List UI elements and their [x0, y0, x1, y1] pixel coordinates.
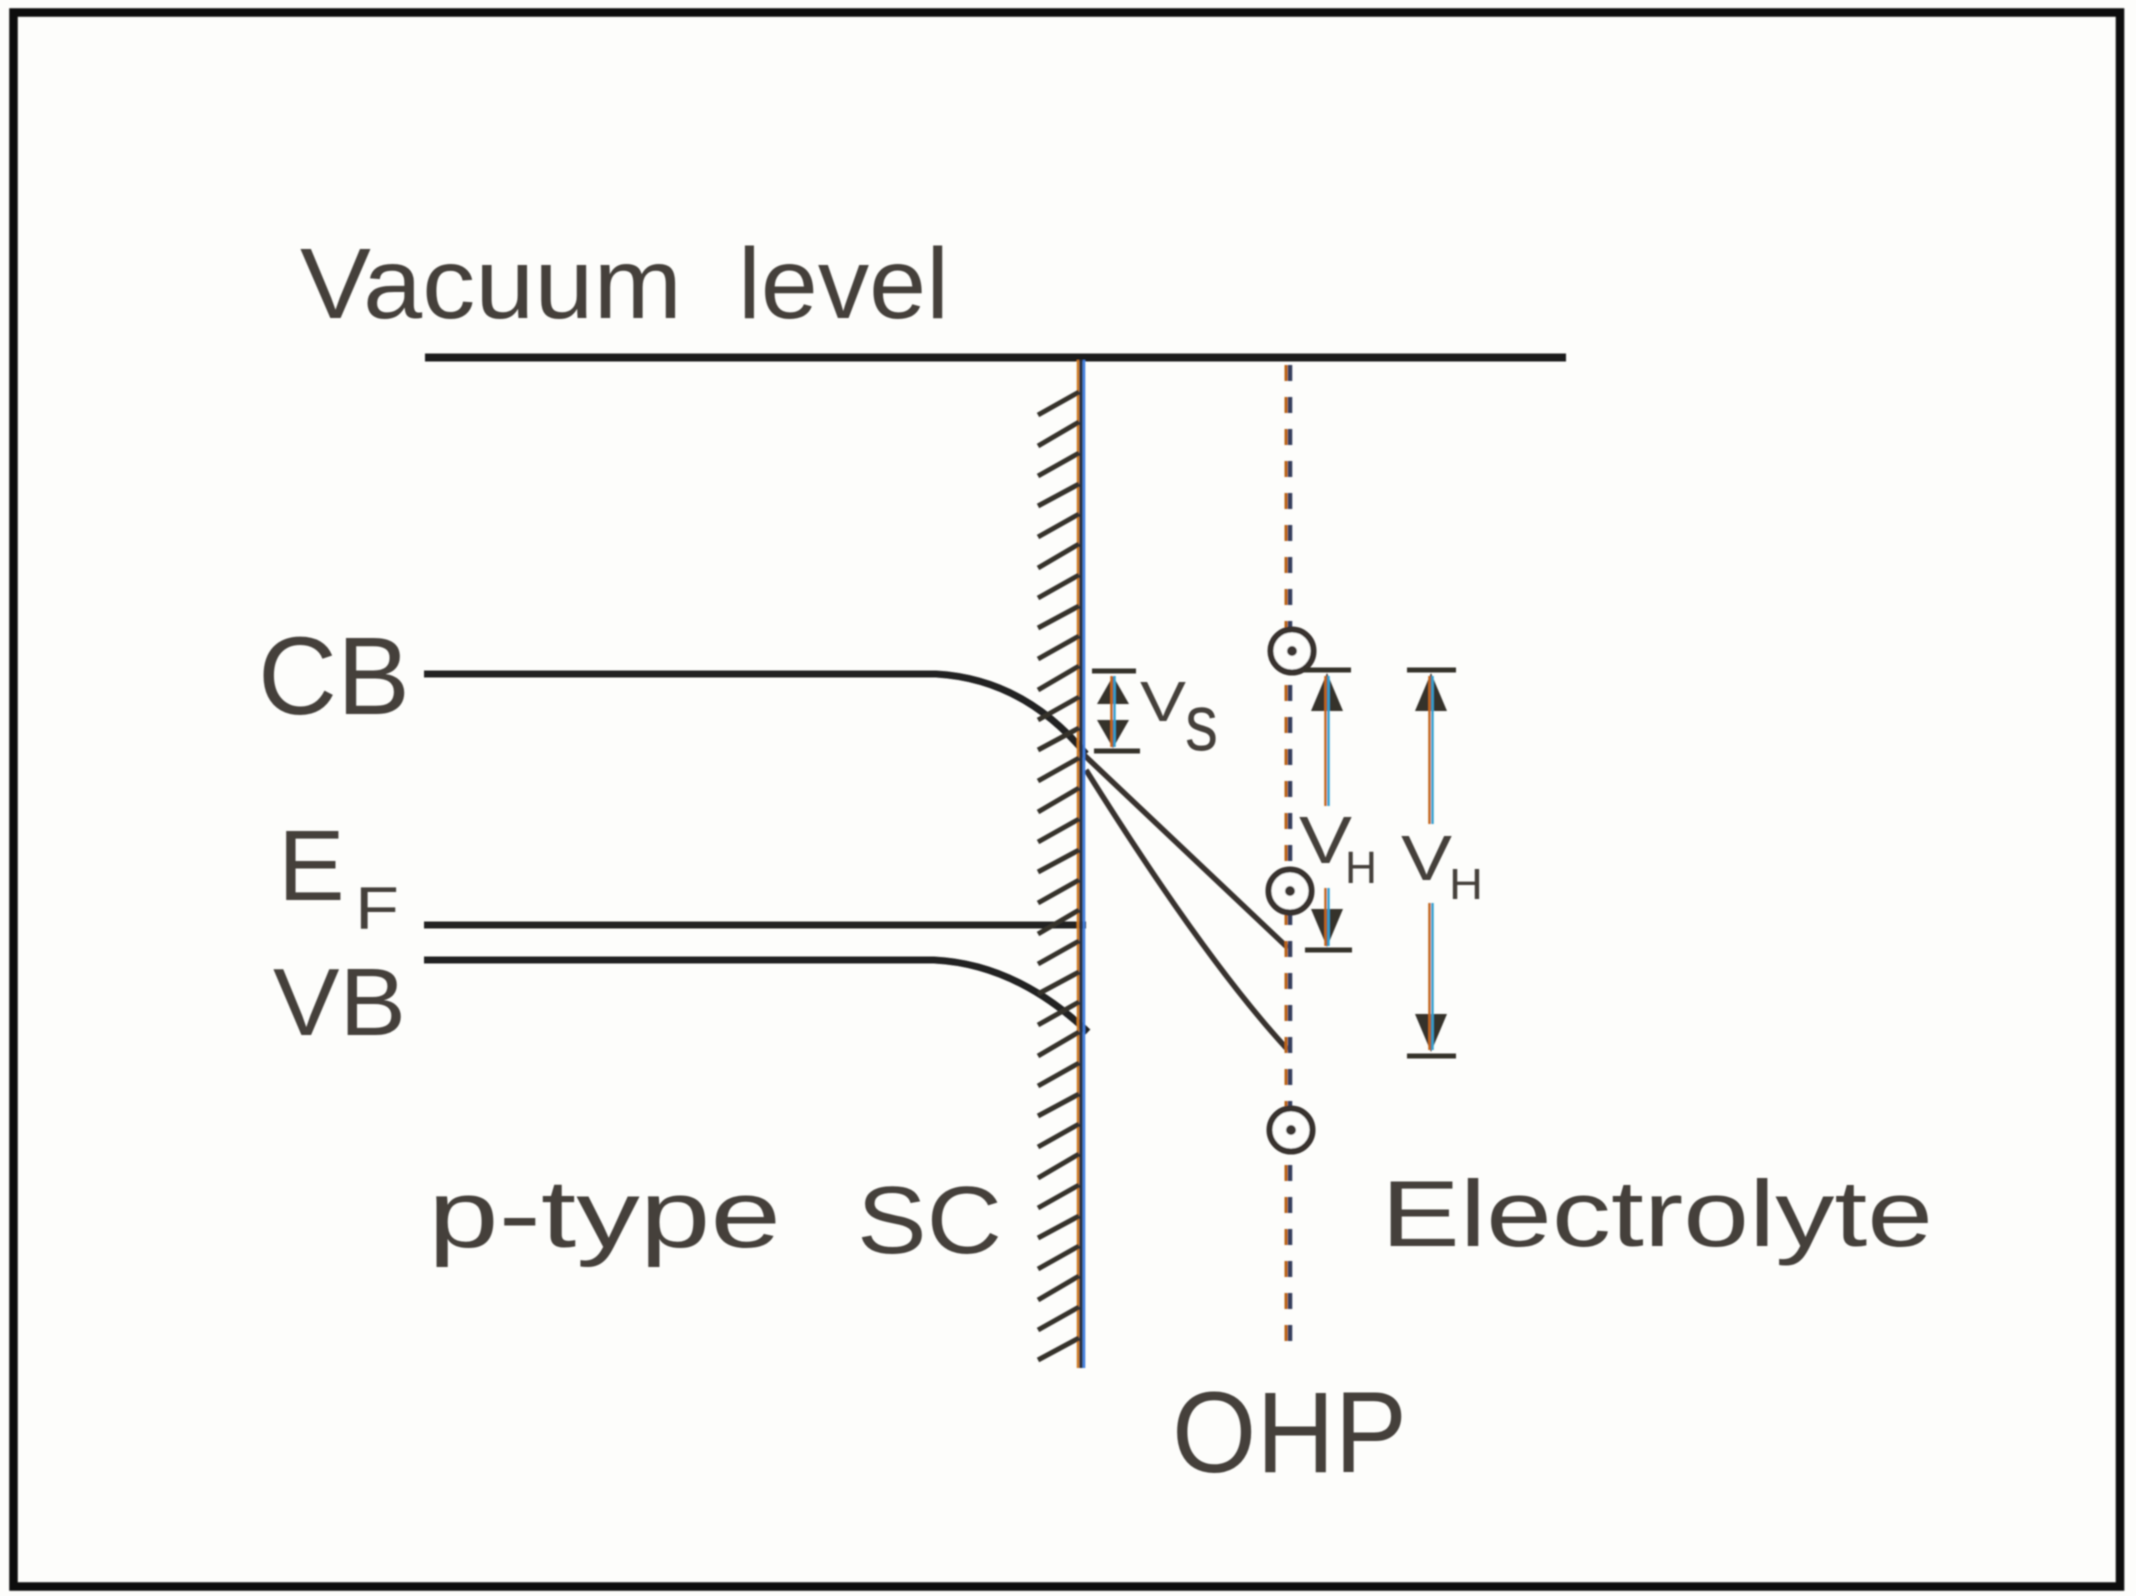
svg-text:H: H — [1345, 842, 1377, 893]
svg-text:CB: CB — [258, 615, 410, 738]
conduction band line (bulk, bending down at surface) — [424, 674, 1086, 754]
inner VH dimension arrow (on OHP) — [1304, 670, 1352, 950]
svg-text:H: H — [1449, 860, 1483, 909]
svg-text:F: F — [355, 875, 399, 942]
svg-text:E: E — [278, 810, 345, 922]
OHP dashed vertical line — [1286, 365, 1290, 1356]
circled-dot centers — [1285, 646, 1297, 1135]
svg-text:Vacuum: Vacuum — [300, 228, 682, 340]
svg-text:SC: SC — [857, 1167, 1002, 1274]
svg-text:OHP: OHP — [1172, 1369, 1407, 1497]
svg-text:Electrolyte: Electrolyte — [1381, 1161, 1933, 1266]
CB continuation across Helmholtz layer (upper diagonal) — [1083, 754, 1288, 948]
svg-text:VB: VB — [273, 949, 406, 1056]
svg-text:s: s — [1185, 678, 1218, 767]
semiconductor surface (hatched interface line) — [1038, 360, 1084, 1368]
circled-dot ion symbol (top) — [1269, 630, 1314, 1152]
svg-text:V: V — [1401, 822, 1452, 894]
Vs dimension arrow at surface — [1092, 671, 1140, 751]
svg-text:level: level — [738, 228, 949, 340]
label: Vacuum level — [300, 228, 949, 340]
lower diagonal to OHP — [1086, 770, 1288, 1050]
outer VH dimension arrow — [1407, 670, 1456, 1056]
Fermi level line — [424, 922, 1086, 929]
vacuum level line — [425, 354, 1566, 362]
svg-text:p-type: p-type — [428, 1161, 781, 1268]
svg-text:V: V — [1140, 670, 1186, 734]
valence band line (bulk, bending down at surface) — [424, 960, 1088, 1032]
